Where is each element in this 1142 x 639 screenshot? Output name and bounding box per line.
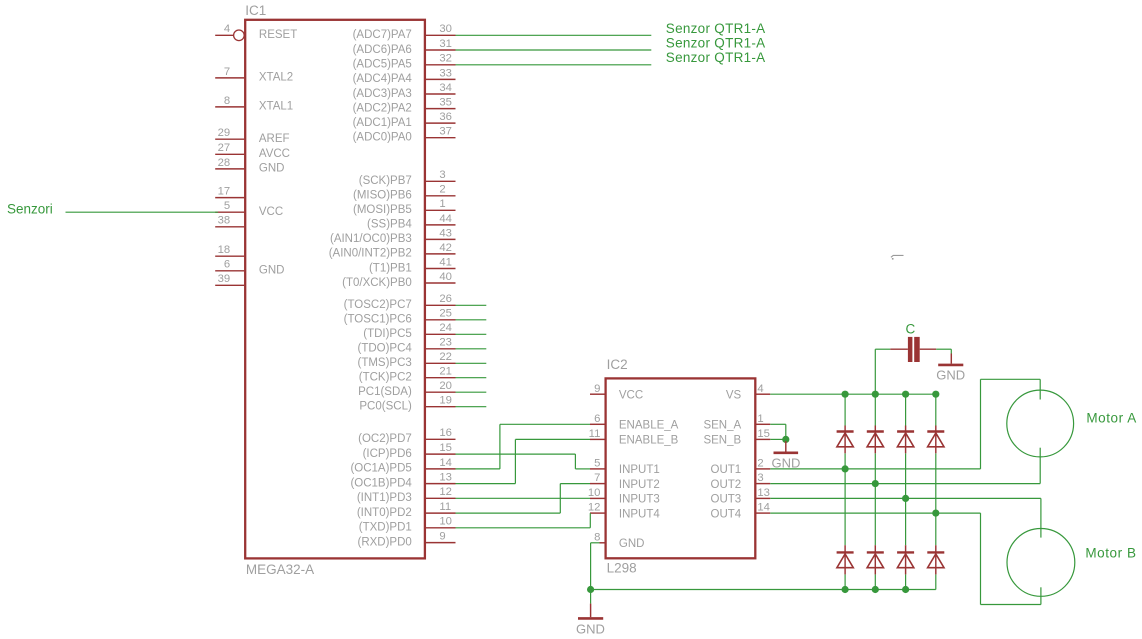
IC2 right pin 13 stub: [755, 497, 770, 499]
IC2 left pin 5 stub: [590, 468, 605, 470]
IC2 pin name INPUT3: [619, 494, 660, 506]
svg-text:(T1)PB1: (T1)PB1: [369, 262, 412, 274]
svg-text:(SS)PB4: (SS)PB4: [367, 219, 412, 231]
svg-text:13: 13: [757, 487, 770, 499]
IC1 right pin 36 stub: [426, 122, 456, 124]
IC1 right pin 24 stub: [426, 333, 456, 335]
IC2 pin number 6: [594, 413, 600, 425]
IC1 pin number 41: [439, 256, 452, 268]
net label Senzor QTR1-A #3: [666, 50, 766, 65]
IC1 pin name (TXD)PD1: [359, 522, 412, 534]
IC2 right pin 1 stub: [755, 423, 770, 425]
IC2 left pin 8 stub: [600, 542, 605, 544]
junction dot column 4 at VS wire: [932, 391, 939, 398]
svg-text:36: 36: [439, 111, 452, 123]
wire from pin 19: [456, 406, 487, 408]
diode D1 (top row): [837, 426, 854, 454]
IC2 pin number 15: [757, 428, 770, 440]
IC1 pin number 9: [439, 531, 445, 543]
IC1 left pin 8 stub: [215, 106, 244, 108]
IC1 pin number 38: [218, 215, 231, 227]
svg-text:32: 32: [439, 53, 452, 65]
svg-text:9: 9: [594, 383, 600, 395]
IC1 pin number 10: [439, 516, 452, 528]
IC1 right pin 35 stub: [426, 108, 456, 110]
IC1 pin number 36: [439, 111, 452, 123]
pin 4 RESET stub with inversion bubble: [215, 30, 244, 41]
svg-text:(INT0)PD2: (INT0)PD2: [357, 507, 412, 519]
wire OUT3 to Motor B top: [770, 498, 1041, 537]
svg-text:6: 6: [224, 259, 230, 271]
junction dot column 3 at ground rail: [902, 586, 909, 593]
ground symbol GND2 bar: [774, 451, 799, 454]
IC1 right pin 1 stub: [426, 209, 456, 211]
IC1 pin name (MISO)PB6: [353, 190, 412, 202]
diode D7 (bottom row): [897, 545, 914, 574]
wire IC2 GND pin 8 down to rail: [591, 543, 600, 590]
svg-text:37: 37: [439, 126, 452, 138]
IC2 pin number 7: [594, 472, 600, 484]
wire diode column 4: [935, 394, 937, 589]
diode D3 (top row): [897, 426, 914, 454]
svg-text:10: 10: [588, 487, 601, 499]
IC1 pin name VCC (pin 5): [259, 206, 283, 218]
ground rail wire: [591, 589, 936, 591]
wire Senzori to IC1 pin 5: [66, 211, 219, 213]
wire PD5 to ENABLE_A: [456, 424, 591, 469]
IC2 designator label: [607, 357, 628, 372]
svg-text:GND: GND: [259, 163, 285, 175]
wire OUT1 to Motor A top: [770, 379, 1040, 469]
IC1 pin number 5: [224, 200, 230, 212]
wire OUT4 to Motor B bottom: [770, 513, 1041, 604]
svg-text:(TXD)PD1: (TXD)PD1: [359, 522, 412, 534]
IC1 right pin 14 stub: [426, 468, 456, 470]
IC1 pin number 7: [224, 66, 230, 78]
IC1 left pin 28 stub: [215, 168, 244, 170]
svg-text:15: 15: [757, 428, 770, 440]
junction dot column 1 at VS wire: [842, 391, 849, 398]
svg-text:43: 43: [439, 227, 452, 239]
svg-text:XTAL2: XTAL2: [259, 72, 293, 84]
IC2 left pin 6 stub: [590, 423, 605, 425]
IC1 right pin 19 stub: [426, 406, 456, 408]
IC1 left pin 29 stub: [215, 138, 244, 140]
IC1 right pin 32 stub: [426, 64, 456, 66]
net label Senzori: [7, 201, 53, 216]
diode D6 (bottom row): [867, 545, 884, 574]
IC1 left pin 38 stub: [215, 226, 244, 228]
IC2 pin name INPUT1: [619, 464, 660, 476]
IC1 pin name (OC1A)PD5: [350, 463, 411, 475]
IC1 right pin 23 stub: [426, 348, 456, 350]
IC1 pin number 29: [218, 127, 231, 139]
capacitor C1 right lead: [920, 348, 937, 350]
net label Senzor QTR1-A #2: [666, 36, 766, 51]
IC1 right pin 3 stub: [426, 180, 456, 182]
IC2 pin number 1: [757, 413, 763, 425]
svg-text:(INT1)PD3: (INT1)PD3: [357, 492, 412, 504]
svg-text:OUT4: OUT4: [711, 508, 742, 520]
svg-text:VS: VS: [726, 389, 742, 401]
diode D8 (bottom row): [927, 545, 944, 574]
IC1 right pin 12 stub: [426, 497, 456, 499]
IC1 right pin 44 stub: [426, 224, 456, 226]
motor M1 circle (Motor A): [1007, 390, 1074, 457]
svg-text:9: 9: [439, 531, 445, 543]
svg-text:8: 8: [224, 95, 230, 107]
svg-text:GND: GND: [576, 621, 605, 636]
motor label Motor A: [1086, 410, 1136, 425]
svg-text:(RXD)PD0: (RXD)PD0: [357, 536, 411, 548]
ground label GND1: [576, 621, 605, 636]
IC1 pin name RESET (pin 4): [259, 29, 297, 41]
IC1 pin number 42: [439, 242, 452, 254]
IC1 right pin 9 stub: [426, 542, 456, 544]
IC U2 L298 body (IC2): [606, 378, 756, 558]
IC2 pin name SEN_A: [703, 420, 741, 432]
svg-text:(TDO)PC4: (TDO)PC4: [357, 343, 412, 355]
svg-text:GND: GND: [259, 265, 285, 277]
svg-text:(ADC5)PA5: (ADC5)PA5: [353, 59, 412, 71]
svg-text:XTAL1: XTAL1: [259, 101, 293, 113]
IC1 right pin 41 stub: [426, 268, 456, 270]
svg-text:38: 38: [218, 215, 231, 227]
svg-text:GND: GND: [772, 456, 801, 471]
IC1 pin name (TOSC2)PC7: [344, 299, 412, 311]
wire from pin 20: [456, 391, 487, 393]
svg-text:13: 13: [439, 472, 452, 484]
ground label GND3: [936, 367, 965, 382]
IC1 pin name (ADC5)PA5: [353, 59, 412, 71]
IC1 pin number 6: [224, 259, 230, 271]
wire from pin 21: [456, 377, 487, 379]
IC1 pin number 33: [439, 67, 452, 79]
svg-text:22: 22: [439, 351, 452, 363]
wire capacitor to ground: [936, 349, 951, 353]
svg-text:Motor A: Motor A: [1086, 410, 1136, 425]
IC1 pin name AREF (pin 29): [259, 133, 290, 145]
IC2 pin number 13: [757, 487, 770, 499]
svg-text:33: 33: [439, 67, 452, 79]
svg-text:(OC1B)PD4: (OC1B)PD4: [350, 477, 412, 489]
svg-text:(SCK)PB7: (SCK)PB7: [359, 175, 412, 187]
wire OUT2 to Motor A bottom: [770, 448, 1040, 484]
IC2 pin name GND: [619, 538, 645, 550]
svg-text:PC0(SCL): PC0(SCL): [359, 401, 412, 413]
IC1 pin name (ADC1)PA1: [353, 117, 412, 129]
svg-text:(ADC4)PA4: (ADC4)PA4: [353, 73, 413, 85]
svg-text:14: 14: [439, 457, 452, 469]
IC1 pin number 2: [439, 184, 445, 196]
capacitor C1 plates: [908, 337, 920, 362]
diode D4 (top row): [927, 426, 944, 454]
svg-text:Motor B: Motor B: [1085, 546, 1136, 561]
IC1 pin number 18: [218, 244, 231, 256]
svg-text:SEN_A: SEN_A: [703, 420, 741, 432]
capacitor C1 left lead: [890, 348, 908, 350]
IC1 pin number 35: [439, 97, 452, 109]
ground symbol GND1 stem: [590, 590, 592, 618]
IC2 pin number 8: [594, 531, 600, 543]
svg-text:(TOSC2)PC7: (TOSC2)PC7: [344, 299, 412, 311]
IC1 pin number 31: [439, 38, 452, 50]
wire SEN_A to junction: [770, 424, 786, 439]
junction dot column 3 at VS wire: [902, 391, 909, 398]
IC2 pin name ENABLE_A: [619, 420, 679, 432]
IC2 pin name OUT3: [711, 494, 742, 506]
IC1 pin name (SCK)PB7: [359, 175, 412, 187]
wire SEN_B to junction: [770, 438, 786, 440]
svg-text:12: 12: [439, 486, 452, 498]
svg-text:11: 11: [439, 501, 451, 513]
IC2 pin name SEN_B: [703, 435, 741, 447]
IC1 pin name (SS)PB4: [367, 219, 412, 231]
svg-text:(TMS)PC3: (TMS)PC3: [357, 357, 411, 369]
IC1 left pin 18 stub: [215, 255, 244, 257]
IC U1 MEGA32-A body (IC1): [245, 20, 425, 559]
svg-text:Senzor QTR1-A: Senzor QTR1-A: [666, 21, 766, 36]
IC1 right pin 30 stub: [426, 34, 456, 36]
wire PD1 to INPUT4: [456, 513, 591, 528]
IC2 pin name VS: [726, 389, 742, 401]
IC1 pin number 28: [218, 157, 231, 169]
svg-text:(T0/XCK)PB0: (T0/XCK)PB0: [342, 277, 412, 289]
IC1 pin number 20: [439, 380, 452, 392]
svg-text:(MOSI)PB5: (MOSI)PB5: [353, 204, 412, 216]
IC1 pin number 34: [439, 82, 452, 94]
IC2 pin name VCC: [619, 389, 643, 401]
svg-text:15: 15: [439, 442, 452, 454]
IC2 right pin 3 stub: [755, 483, 770, 485]
svg-text:7: 7: [594, 472, 600, 484]
IC1 pin name (ADC7)PA7: [353, 29, 412, 41]
IC1 pin name (TDO)PC4: [357, 343, 412, 355]
svg-text:31: 31: [439, 38, 452, 50]
IC1 pin name (MOSI)PB5: [353, 204, 412, 216]
svg-text:39: 39: [218, 273, 231, 285]
svg-text:8: 8: [594, 531, 600, 543]
svg-text:IC2: IC2: [607, 357, 628, 372]
IC1 right pin 22 stub: [426, 362, 456, 364]
wire PD4 to ENABLE_B: [456, 439, 591, 483]
IC1 pin name (T1)PB1: [369, 262, 412, 274]
IC1 pin number 44: [439, 213, 452, 225]
svg-text:7: 7: [224, 66, 230, 78]
svg-text:INPUT4: INPUT4: [619, 508, 661, 520]
diode D2 (top row): [867, 426, 884, 454]
svg-text:(ADC1)PA1: (ADC1)PA1: [353, 117, 412, 129]
svg-text:24: 24: [439, 322, 452, 334]
svg-text:(TOSC1)PC6: (TOSC1)PC6: [344, 314, 412, 326]
wire from pin 31: [456, 49, 652, 51]
svg-text:3: 3: [757, 472, 763, 484]
wire PD6 to INPUT1: [456, 454, 591, 469]
svg-text:5: 5: [224, 200, 230, 212]
svg-text:(MISO)PB6: (MISO)PB6: [353, 190, 412, 202]
svg-text:1: 1: [439, 198, 445, 210]
svg-text:VCC: VCC: [259, 206, 283, 218]
IC1 pin name (T0/XCK)PB0: [342, 277, 412, 289]
IC1 designator label: [245, 3, 266, 18]
IC1 right pin 31 stub: [426, 49, 456, 51]
svg-text:10: 10: [439, 516, 452, 528]
svg-text:23: 23: [439, 337, 452, 349]
net label Senzor QTR1-A #1: [666, 21, 766, 36]
svg-text:19: 19: [439, 395, 452, 407]
svg-text:OUT3: OUT3: [711, 494, 742, 506]
IC2 pin number 5: [594, 458, 600, 470]
svg-text:AREF: AREF: [259, 133, 290, 145]
IC1 pin name (TCK)PC2: [359, 372, 412, 384]
svg-text:Senzor QTR1-A: Senzor QTR1-A: [666, 50, 766, 65]
IC2 pin number 14: [757, 502, 770, 514]
svg-text:SEN_B: SEN_B: [703, 435, 741, 447]
IC2 pin name OUT4: [711, 508, 742, 520]
svg-text:3: 3: [439, 169, 445, 181]
ground symbol GND2 stem: [785, 441, 787, 452]
svg-text:28: 28: [218, 157, 231, 169]
IC1 pin name (ADC6)PA6: [353, 44, 412, 56]
svg-text:(OC1A)PD5: (OC1A)PD5: [350, 463, 411, 475]
wire PD2 to INPUT2: [456, 484, 591, 513]
ground symbol GND3 stem: [950, 354, 952, 364]
IC1 value label MEGA32-A: [246, 562, 314, 577]
IC1 pin name PC0(SCL): [359, 401, 412, 413]
wire from pin 25: [456, 319, 487, 321]
svg-text:30: 30: [439, 23, 452, 35]
IC1 pin number 14: [439, 457, 452, 469]
IC1 pin name (RXD)PD0: [357, 536, 411, 548]
svg-text:IC1: IC1: [245, 3, 266, 18]
IC1 pin name (OC2)PD7: [358, 433, 412, 445]
IC2 left pin 9 stub: [590, 393, 605, 395]
IC1 right pin 21 stub: [426, 377, 456, 379]
svg-text:44: 44: [439, 213, 452, 225]
junction dot column 2 at VS wire: [872, 391, 879, 398]
IC1 pin number 43: [439, 227, 452, 239]
svg-text:4: 4: [757, 383, 763, 395]
svg-text:OUT2: OUT2: [711, 479, 742, 491]
IC1 pin name XTAL2 (pin 7): [259, 72, 293, 84]
IC1 pin name (AIN1/OC0)PB3: [330, 233, 412, 245]
svg-text:17: 17: [218, 186, 231, 198]
IC1 pin name (ADC0)PA0: [353, 132, 412, 144]
svg-text:29: 29: [218, 127, 231, 139]
svg-text:16: 16: [439, 427, 452, 439]
IC1 right pin 42 stub: [426, 253, 456, 255]
IC1 pin number 4: [224, 23, 230, 35]
IC2 value label L298: [607, 561, 637, 576]
svg-text:(OC2)PD7: (OC2)PD7: [358, 433, 412, 445]
IC1 left pin 5 stub: [215, 211, 244, 213]
svg-text:L298: L298: [607, 561, 637, 576]
IC1 right pin 33 stub: [426, 78, 456, 80]
ground label GND2: [772, 456, 801, 471]
wire from pin 23: [456, 348, 487, 350]
IC2 pin name OUT2: [711, 479, 742, 491]
svg-text:34: 34: [439, 82, 452, 94]
svg-text:ENABLE_B: ENABLE_B: [619, 435, 679, 447]
svg-text:(ADC3)PA3: (ADC3)PA3: [353, 88, 412, 100]
svg-text:1: 1: [757, 413, 763, 425]
svg-text:(ADC2)PA2: (ADC2)PA2: [353, 102, 412, 114]
svg-text:2: 2: [757, 458, 763, 470]
IC1 right pin 2 stub: [426, 195, 456, 197]
IC2 pin number 9: [594, 383, 600, 395]
junction dot column 2 at ground rail: [872, 586, 879, 593]
svg-text:21: 21: [439, 366, 452, 378]
IC1 pin name XTAL1 (pin 8): [259, 101, 293, 113]
svg-text:14: 14: [757, 502, 770, 514]
wire VS to diode columns: [770, 393, 936, 395]
svg-text:GND: GND: [936, 367, 965, 382]
motor label Motor B: [1085, 546, 1136, 561]
wire PD3 to INPUT3: [456, 497, 591, 499]
IC2 pin number 4: [757, 383, 763, 395]
IC1 pin name (ADC3)PA3: [353, 88, 412, 100]
IC2 pin number 2: [757, 458, 763, 470]
IC1 pin number 3: [439, 169, 445, 181]
svg-text:4: 4: [224, 23, 230, 35]
ground symbol GND3 bar: [938, 364, 963, 367]
svg-text:(AIN1/OC0)PB3: (AIN1/OC0)PB3: [330, 233, 412, 245]
svg-text:INPUT2: INPUT2: [619, 479, 660, 491]
IC2 left pin 12 stub: [590, 512, 605, 514]
IC1 pin name PC1(SDA): [358, 386, 412, 398]
svg-text:RESET: RESET: [259, 29, 297, 41]
wire from pin 24: [456, 333, 487, 335]
IC1 pin number 8: [224, 95, 230, 107]
IC1 left pin 27 stub: [215, 153, 244, 155]
svg-text:PC1(SDA): PC1(SDA): [358, 386, 412, 398]
ground symbol GND1 bar: [578, 617, 603, 620]
IC1 right pin 11 stub: [426, 512, 456, 514]
IC1 right pin 25 stub: [426, 319, 456, 321]
svg-text:26: 26: [439, 293, 452, 305]
svg-text:35: 35: [439, 97, 452, 109]
wire diode column 1: [844, 394, 846, 589]
IC2 left pin 11 stub: [590, 438, 605, 440]
IC1 pin name (OC1B)PD4: [350, 477, 412, 489]
IC1 pin number 40: [439, 271, 452, 283]
svg-text:GND: GND: [619, 538, 645, 550]
IC1 pin name (ADC2)PA2: [353, 102, 412, 114]
diode D5 (bottom row): [837, 545, 854, 574]
svg-text:Senzor QTR1-A: Senzor QTR1-A: [666, 36, 766, 51]
svg-text:INPUT1: INPUT1: [619, 464, 660, 476]
IC1 pin number 39: [218, 273, 231, 285]
IC1 pin number 24: [439, 322, 452, 334]
IC2 pin name INPUT4: [619, 508, 661, 520]
wire diode column 2: [874, 394, 876, 589]
IC1 pin number 26: [439, 293, 452, 305]
IC1 left pin 17 stub: [215, 197, 244, 199]
svg-text:C: C: [906, 322, 916, 337]
IC1 pin number 30: [439, 23, 452, 35]
svg-text:(ADC0)PA0: (ADC0)PA0: [353, 132, 412, 144]
svg-text:20: 20: [439, 380, 452, 392]
svg-text:(ADC6)PA6: (ADC6)PA6: [353, 44, 412, 56]
svg-text:5: 5: [594, 458, 600, 470]
IC2 pin number 12: [588, 502, 601, 514]
IC1 right pin 34 stub: [426, 93, 456, 95]
svg-text:27: 27: [218, 142, 231, 154]
IC2 pin name OUT1: [711, 464, 742, 476]
svg-text:OUT1: OUT1: [711, 464, 742, 476]
svg-text:(TCK)PC2: (TCK)PC2: [359, 372, 412, 384]
IC1 pin number 37: [439, 126, 452, 138]
